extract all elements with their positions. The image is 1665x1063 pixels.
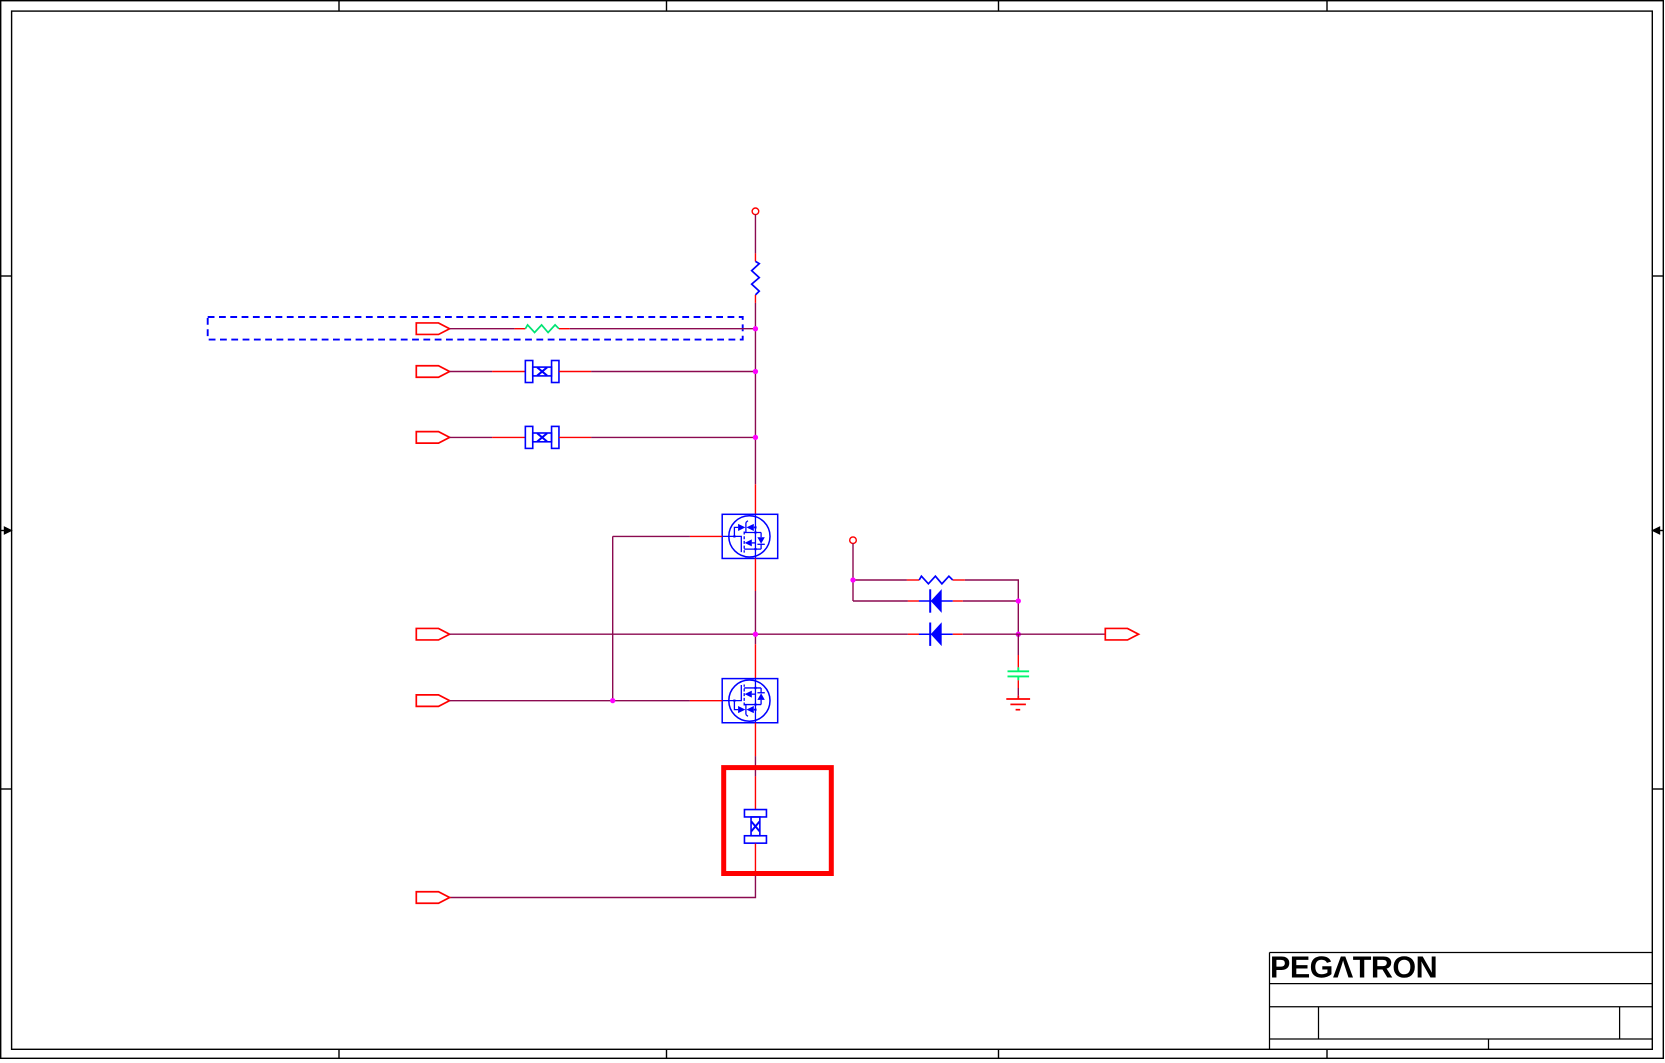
title block [1270,953,1653,1050]
wire cap branch [1017,634,1019,655]
mosfet Q2 [690,644,778,756]
wire gate row [450,700,690,702]
mosfet Q1 [690,484,778,591]
wire to ground [1017,688,1019,696]
junction [610,698,615,703]
input port 4 [416,628,449,640]
svg-text:PEGΛTRON: PEGΛTRON [1270,951,1437,985]
output port [1105,628,1138,640]
junction [753,435,758,440]
PEGATRON logo [1270,951,1437,985]
input port 3 [416,432,449,444]
input port 2 [416,366,449,378]
input port 5 [416,695,449,707]
resistor R3 [907,576,965,584]
power node (right) [850,537,857,544]
fuse F2 [492,426,591,448]
capacitor C1 [1008,655,1030,688]
junction [753,326,758,331]
wire Q1 gate [613,536,690,700]
junction [1016,598,1021,603]
resistor R1 [752,253,760,303]
wire row2 [450,371,756,373]
wire main row [450,633,908,635]
wire row3 [450,436,756,438]
wire to output [963,633,1106,635]
wire bottom row [450,876,756,898]
junction [850,577,855,582]
wire right stem [853,543,1018,634]
wire below Q2 [754,756,756,776]
wire row1 [450,328,756,330]
junction [753,369,758,374]
resistor R2 [515,325,570,333]
diode D2 [908,622,963,646]
power node (top) [752,208,759,215]
junction [1016,632,1021,637]
wire main bus upper [754,214,756,484]
fuse F1 [492,361,591,383]
highlight box [724,768,832,874]
dashed DNI box [208,317,743,340]
diode D1 [908,589,963,613]
fuse F3 [744,776,766,875]
ground [1006,696,1030,710]
wire bus between fets [754,591,756,644]
input port 6 [416,892,449,904]
input port 1 [416,323,449,335]
junction [753,632,758,637]
